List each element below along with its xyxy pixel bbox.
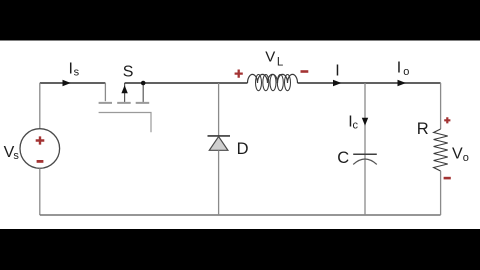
capacitor C top plate <box>353 153 377 155</box>
inductor L humps <box>248 74 298 83</box>
label Is <box>69 61 80 79</box>
plus mark at resistor top <box>444 117 450 123</box>
svg-text:S: S <box>123 64 134 81</box>
transistor S channel bars <box>99 102 150 104</box>
wire: bottom rail <box>40 214 441 216</box>
plus mark in Vs <box>36 136 45 144</box>
svg-text:I: I <box>335 63 339 80</box>
wire: diode branch lower <box>218 150 220 215</box>
wire: capacitor branch <box>364 83 366 215</box>
wire: diode branch upper <box>218 83 220 136</box>
current arrow Io <box>398 80 407 87</box>
svg-text:o: o <box>403 66 409 78</box>
transistor S right stub <box>142 83 144 102</box>
node: junction dot at switch output <box>141 81 146 86</box>
resistor R zigzag <box>434 129 448 171</box>
canvas background <box>0 41 480 230</box>
current arrow I <box>333 80 342 87</box>
svg-text:s: s <box>13 150 19 162</box>
label Io <box>397 60 410 78</box>
svg-text:o: o <box>463 152 469 164</box>
wire: left vertical upper (source top lead) <box>39 83 41 129</box>
transistor S middle stub with arrow <box>124 83 126 102</box>
diode D cathode bar <box>208 135 231 137</box>
svg-text:V: V <box>265 49 275 66</box>
wire: top rail from switch to inductor <box>125 82 248 84</box>
capacitor C curved plate <box>353 159 377 164</box>
svg-text:L: L <box>277 57 284 69</box>
label VL <box>265 49 284 69</box>
minus mark at inductor right <box>301 70 309 73</box>
wire: top rail from inductor to load corner <box>298 82 441 84</box>
svg-text:I: I <box>397 60 401 77</box>
transistor S gate plate and lead <box>99 113 151 133</box>
inductor L loops <box>256 75 291 91</box>
wire: right branch lower <box>440 171 442 215</box>
svg-text:C: C <box>337 149 349 167</box>
svg-text:s: s <box>74 67 80 79</box>
label Ic <box>348 114 358 132</box>
svg-text:R: R <box>417 120 429 138</box>
diode D triangle <box>209 137 228 151</box>
svg-text:c: c <box>353 120 359 132</box>
svg-text:D: D <box>237 140 249 158</box>
current arrow Ic (down) <box>362 118 368 126</box>
current arrow Is <box>63 80 71 87</box>
wire: left vertical lower (source bottom lead) <box>39 168 41 215</box>
svg-text:I: I <box>69 61 73 78</box>
transistor S (switch) left stub <box>104 83 106 101</box>
voltage source Vs (circle) <box>20 129 60 169</box>
minus mark in Vs <box>37 160 44 163</box>
svg-text:V: V <box>452 145 463 162</box>
minus mark at resistor bottom <box>444 177 451 180</box>
label Vs <box>4 144 20 162</box>
label Vo <box>452 145 469 164</box>
wire: top-left horizontal from source to switch <box>40 82 106 84</box>
plus mark at inductor left <box>235 70 243 78</box>
wire: right branch upper (to resistor) <box>440 83 442 129</box>
